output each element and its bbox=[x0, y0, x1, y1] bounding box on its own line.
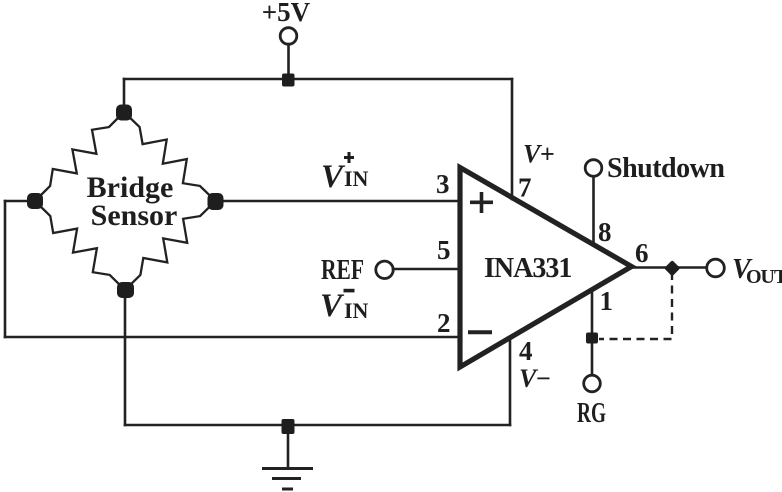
junction: RG node bbox=[586, 333, 598, 344]
svg-text:7: 7 bbox=[518, 173, 532, 203]
node: bridge left bbox=[27, 193, 43, 209]
terminal: Shutdown bbox=[585, 160, 602, 177]
svg-text:OUT: OUT bbox=[746, 266, 782, 288]
svg-text:+5V: +5V bbox=[262, 0, 311, 27]
wire: pin 1 to RG terminal bbox=[591, 291, 594, 375]
dashed feedback: output node to RG pin bbox=[599, 272, 672, 339]
svg-text:IN: IN bbox=[344, 166, 369, 191]
svg-text:INA331: INA331 bbox=[484, 253, 571, 284]
ground bbox=[262, 469, 313, 490]
wire: rail corner down to pin 7 (V+) bbox=[511, 79, 514, 199]
terminal: RG bbox=[584, 375, 601, 392]
wire: bridge right node to pin 3 (VIN+) bbox=[218, 200, 459, 203]
svg-text:8: 8 bbox=[598, 217, 612, 247]
op-amp inverting input - symbol bbox=[468, 330, 492, 334]
node: bridge top bbox=[116, 105, 132, 121]
wire: pin 4 (V-) down to ground rail bbox=[509, 338, 512, 425]
wire: VIN- run to pin 2 bbox=[5, 336, 459, 339]
wire: left rail down bbox=[4, 201, 7, 337]
bridge sensor resistor: bottom-right arm bbox=[125, 201, 216, 290]
svg-text:4: 4 bbox=[519, 336, 533, 366]
wire: ground stub bbox=[287, 425, 290, 468]
svg-text:3: 3 bbox=[436, 169, 450, 199]
bridge sensor resistor: top-right arm bbox=[124, 112, 216, 201]
svg-text:Shutdown: Shutdown bbox=[607, 153, 725, 184]
op-amp U1 INA331 body bbox=[460, 168, 632, 368]
wire: +5V supply rail (top) bbox=[124, 78, 512, 81]
wire: ground rail (bottom) bbox=[125, 424, 510, 427]
wire: shutdown terminal to pin 8 bbox=[592, 177, 595, 244]
svg-text:IN: IN bbox=[344, 298, 369, 323]
svg-text:Sensor: Sensor bbox=[91, 199, 178, 232]
wire: bridge top node up to rail bbox=[123, 79, 126, 110]
wire: bridge bottom node down to ground rail bbox=[124, 293, 127, 425]
junction: ground rail tap bbox=[282, 419, 295, 434]
node: bridge right bbox=[208, 193, 224, 210]
svg-text:V: V bbox=[320, 288, 345, 324]
svg-text:6: 6 bbox=[635, 238, 649, 268]
svg-text:−: − bbox=[536, 364, 551, 393]
svg-text:5: 5 bbox=[437, 235, 451, 265]
wire: pin 6 output bbox=[632, 266, 706, 269]
svg-text:+: + bbox=[540, 140, 555, 169]
bridge sensor resistor: top-left arm bbox=[35, 112, 124, 201]
terminal: VOUT bbox=[707, 259, 725, 277]
wire: REF to pin 5 bbox=[393, 268, 459, 271]
junction: +5V rail tap bbox=[282, 74, 295, 87]
terminal: REF bbox=[376, 261, 393, 278]
svg-text:2: 2 bbox=[437, 308, 451, 338]
junction: output node bbox=[664, 260, 680, 276]
wire: +5V terminal stub bbox=[287, 44, 290, 79]
svg-text:V: V bbox=[321, 159, 346, 195]
bridge sensor resistor: bottom-left arm bbox=[35, 201, 125, 290]
node: bridge bottom bbox=[117, 282, 134, 298]
terminal: +5V bbox=[280, 28, 297, 45]
svg-text:RG: RG bbox=[577, 397, 606, 429]
svg-text:REF: REF bbox=[321, 254, 364, 286]
op-amp non-inverting input + symbol bbox=[470, 192, 493, 213]
wire: bridge left node to left rail bbox=[5, 200, 35, 203]
svg-text:1: 1 bbox=[600, 286, 614, 316]
